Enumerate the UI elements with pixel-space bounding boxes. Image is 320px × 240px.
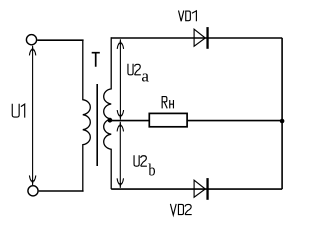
svg-text:a: a	[141, 66, 149, 85]
label U2b	[134, 155, 156, 180]
center tap junction dot	[108, 118, 113, 123]
label U2a	[128, 64, 150, 86]
wire top circle to transformer primary	[37, 39, 83, 41]
right rail wire	[281, 38, 283, 189]
bottom rail wire	[111, 188, 282, 190]
terminal circle bottom-left	[28, 186, 38, 196]
label Rn	[162, 97, 173, 109]
label U1	[12, 104, 24, 118]
wire center tap to resistor	[110, 120, 149, 122]
U1 voltage arrow	[29, 46, 35, 185]
wire resistor to right rail	[187, 120, 282, 122]
resistor Rn body	[149, 113, 187, 126]
label T	[92, 53, 100, 67]
U2a voltage arrow	[117, 39, 123, 119]
junction dot on right rail	[280, 119, 285, 124]
svg-text:b: b	[148, 161, 155, 180]
label VD1	[179, 11, 197, 22]
label VD2	[170, 204, 191, 215]
diode VD1	[194, 27, 209, 49]
U2b voltage arrow	[117, 122, 123, 188]
top rail wire	[111, 37, 282, 39]
transformer secondary winding	[104, 37, 112, 189]
diode VD2	[194, 178, 209, 200]
transformer T primary winding	[83, 40, 91, 192]
transformer core	[96, 84, 98, 166]
terminal circle top-left	[26, 35, 36, 45]
wire bottom circle to transformer primary	[39, 190, 84, 192]
